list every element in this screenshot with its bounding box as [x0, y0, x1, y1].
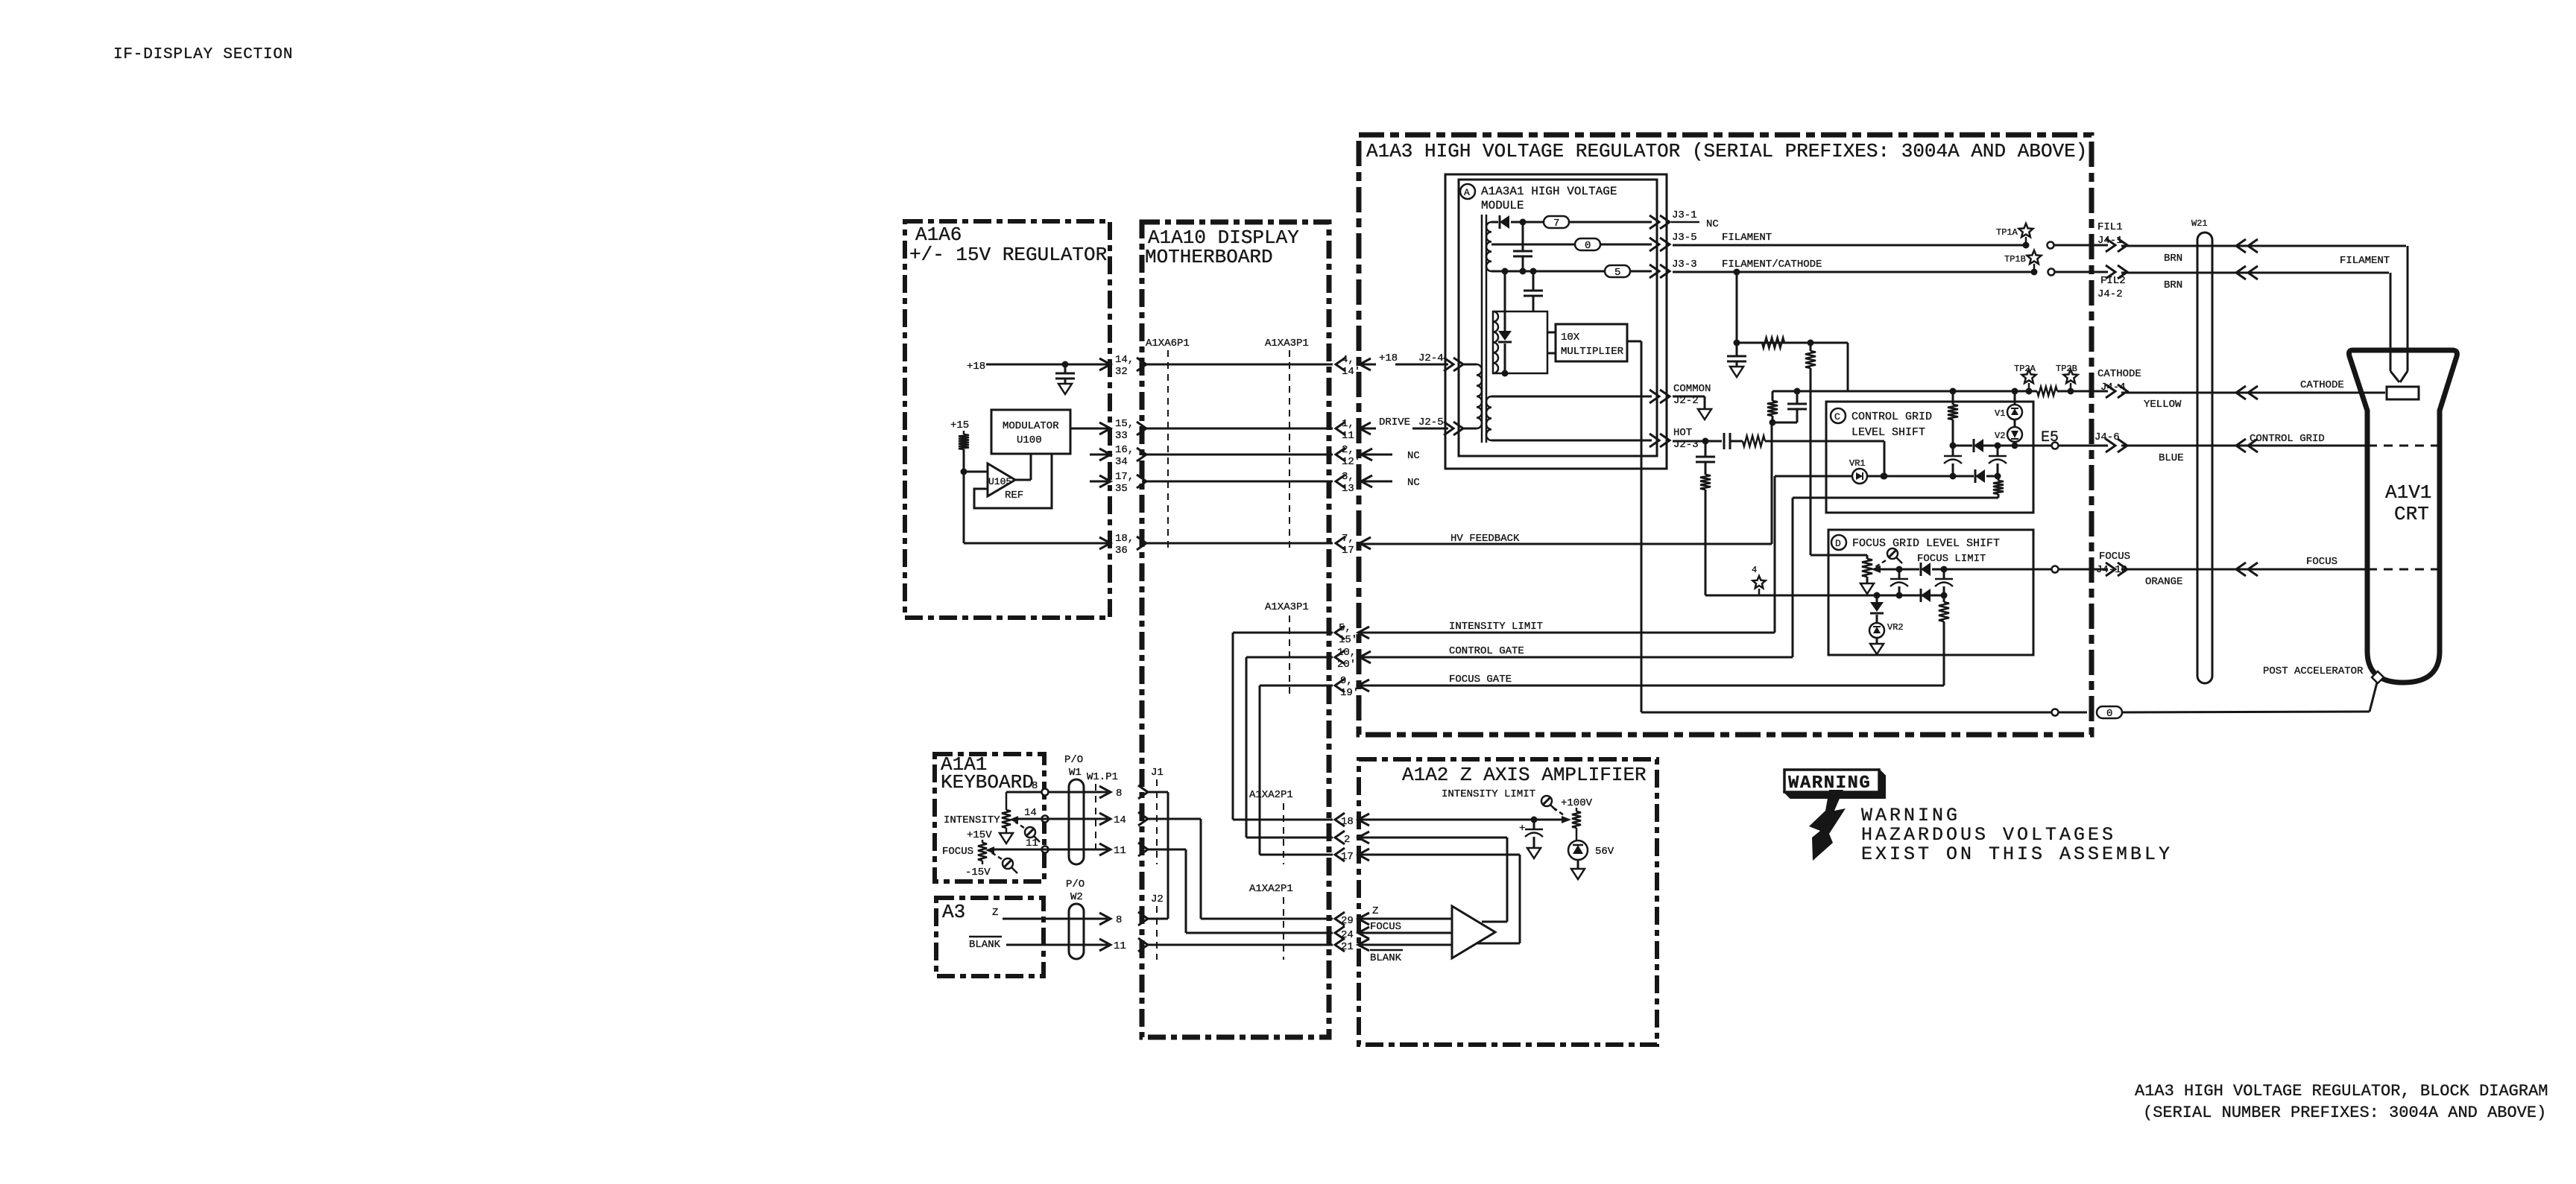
chevron A1A2 pin 18: [1335, 813, 1345, 826]
svg-text:BLANK: BLANK: [969, 939, 1001, 951]
arrowhead left toward pins 4,14: [1360, 358, 1371, 370]
resistor below focus row right to focus gate: [1939, 602, 1949, 621]
svg-text:W1: W1: [1069, 767, 1082, 779]
chevron intensity limit at A1XA3P1: [1335, 626, 1345, 639]
svg-text:13': 13': [1342, 483, 1360, 495]
svg-text:20': 20': [1337, 659, 1356, 671]
svg-text:FOCUS GATE: FOCUS GATE: [1449, 674, 1512, 686]
arrowhead into pins 18,36: [1099, 537, 1111, 549]
svg-text:A1A6: A1A6: [915, 224, 962, 246]
wire row 668 to control gate riser: [1793, 497, 1998, 499]
svg-text:J3-5: J3-5: [1672, 232, 1697, 244]
wire Z into op-amp: [1358, 918, 1452, 920]
wire filament/cathode to A1A3 edge: [2055, 271, 2108, 273]
wire cathode through W21: [2121, 392, 2385, 394]
svg-text:VR2: VR2: [1887, 622, 1904, 633]
lightning bolt: [1809, 790, 1846, 861]
svg-text:FIL2: FIL2: [2100, 275, 2126, 287]
svg-text:COMMON: COMMON: [1673, 383, 1711, 395]
svg-text:+18: +18: [1379, 352, 1398, 364]
svg-text:W21: W21: [2191, 218, 2208, 229]
keyboard focus pot: [982, 840, 984, 843]
svg-text:1,: 1,: [1342, 418, 1354, 430]
wire focus gate to focus box riser: [1358, 685, 1944, 687]
wire secondary3 to COMMON: [1491, 396, 1652, 398]
svg-text:A1A2 Z AXIS AMPLIFIER: A1A2 Z AXIS AMPLIFIER: [1402, 764, 1647, 786]
svg-text:MULTIPLIER: MULTIPLIER: [1561, 346, 1624, 358]
svg-text:EXIST ON THIS ASSEMBLY: EXIST ON THIS ASSEMBLY: [1861, 843, 2173, 865]
wire keyboard 11 to W1: [994, 849, 1108, 851]
test point star TP2B: [2064, 370, 2078, 383]
post accelerator diamond: [2372, 671, 2384, 683]
filament heater vee: [2390, 371, 2399, 382]
chevrons cathode from CRT: [2236, 386, 2246, 399]
svg-text:BRN: BRN: [2164, 253, 2182, 265]
wire divider row 460: [1737, 342, 1848, 344]
svg-text:MOTHERBOARD: MOTHERBOARD: [1145, 246, 1273, 268]
wire filament/cathode J3-3 to test point: [1673, 271, 2031, 273]
wire J1 pin14 to riser: [1148, 818, 1201, 820]
module outer box A1A3A1: [1445, 174, 1667, 469]
svg-text:FOCUS: FOCUS: [1370, 921, 1401, 933]
svg-text:33: 33: [1115, 430, 1128, 442]
ground below intensity pot: [1000, 833, 1013, 843]
svg-text:0: 0: [2106, 708, 2112, 720]
chevron A1A2 pin 17: [1335, 848, 1345, 861]
wire FIL1 through W21: [2121, 245, 2406, 247]
svg-text:A1A3 HIGH VOLTAGE REGULATOR, B: A1A3 HIGH VOLTAGE REGULATOR, BLOCK DIAGR…: [2135, 1082, 2548, 1101]
arrowhead drive into pins 15,33: [1099, 422, 1111, 434]
chevrons J3-5: [1650, 238, 1659, 251]
wire J1 pin11 to riser: [1148, 849, 1186, 851]
chevron at A1XA3P1 row 2,12: [1336, 448, 1345, 461]
wire NC row 16,34 short arrow: [1090, 454, 1108, 456]
svg-text:FOCUS: FOCUS: [2099, 551, 2130, 563]
dashed connector line A1XA3P1 lower: [1289, 615, 1290, 694]
chevron J1 pin8: [1138, 785, 1148, 799]
wire control gate to riser: [1360, 656, 1793, 659]
stub HV winding to multiplier lower: [1547, 352, 1556, 355]
transformer core lines: [1481, 215, 1483, 443]
svg-text:TP1A: TP1A: [1996, 227, 2018, 238]
svg-text:Z: Z: [992, 907, 998, 919]
arrowhead control gate: [1360, 651, 1371, 663]
wire to post accelerator oval: [2059, 712, 2087, 714]
ground at COMMON: [1698, 409, 1711, 420]
svg-text:A1XA2P1: A1XA2P1: [1249, 883, 1293, 895]
zener V2: [2007, 427, 2022, 442]
row A1A2 pin 18: [1233, 819, 1333, 821]
dashed connector line A1XA6P1: [1167, 350, 1169, 553]
svg-text:INTENSITY LIMIT: INTENSITY LIMIT: [1442, 788, 1535, 800]
wire V1 to V2: [2014, 420, 2016, 427]
assembly box A1A2 Z AXIS AMPLIFIER: [1359, 759, 1657, 1045]
riser control gate: [1792, 498, 1794, 657]
svg-text:V2: V2: [1995, 431, 2005, 441]
riser keyboard 8 to Z row: [1167, 792, 1169, 919]
op-amp U105 REF: [988, 463, 1015, 496]
wire BLANK into op-amp: [1358, 944, 1452, 946]
wire HOT divider down to row 799: [1705, 490, 1707, 595]
svg-text:BLANK: BLANK: [1370, 952, 1402, 964]
resistor below +15: [963, 431, 965, 434]
svg-text:+15V: +15V: [967, 829, 992, 841]
wire +18 from A1A6 to motherboard edge: [986, 364, 1108, 366]
wire A3 Z to W2: [1003, 918, 1108, 920]
svg-text:10X: 10X: [1561, 332, 1580, 344]
arrow NC row 3,13: [1361, 475, 1372, 487]
diode on focus row: [1921, 563, 1931, 576]
svg-text:CONTROL GRID: CONTROL GRID: [2250, 433, 2325, 445]
svg-text:+18: +18: [967, 361, 985, 373]
capacitor on +18 rail: [1062, 361, 1069, 368]
flag circle D: [1831, 535, 1846, 550]
CRT A1V1 envelope: [2349, 350, 2457, 683]
dashed connector A1XA2P1 upper: [1283, 803, 1284, 864]
svg-text:+15: +15: [950, 420, 969, 431]
dashed adjust to intensity wiper: [1015, 822, 1024, 828]
row A1A2 pin 29 Z: [1201, 918, 1333, 920]
svg-text:11: 11: [1026, 838, 1038, 849]
focus pot wiper arrow: [1871, 566, 1881, 573]
chevron into A1A10 for drive: [1137, 422, 1146, 435]
chevron A1A2 pin 29: [1335, 912, 1345, 925]
arrowhead left toward pins 7,17: [1360, 537, 1371, 549]
chevrons COMMON J2-2: [1650, 390, 1659, 403]
svg-text:J3-1: J3-1: [1672, 209, 1697, 221]
focus pot wiper: [985, 846, 994, 854]
svg-text:BLUE: BLUE: [2159, 452, 2184, 464]
svg-text:P/O: P/O: [1066, 878, 1085, 890]
chevron A1A2 pin 21: [1335, 938, 1345, 952]
svg-text:18,: 18,: [1115, 533, 1134, 545]
flag circle A: [1460, 184, 1475, 199]
dashed adjust to focus wiper: [991, 852, 1002, 859]
svg-text:Z: Z: [1372, 905, 1378, 917]
svg-text:FOCUS GRID LEVEL SHIFT: FOCUS GRID LEVEL SHIFT: [1852, 537, 2000, 550]
oval label 5: [1605, 265, 1630, 277]
assembly box A1A10 DISPLAY MOTHERBOARD: [1142, 222, 1329, 1037]
cable W21 oval: [2197, 232, 2212, 683]
svg-text:C: C: [1834, 411, 1840, 422]
screwdriver intensity limit: [1541, 796, 1552, 806]
cathode level row: [1772, 390, 2037, 393]
row CONTROL GATE: [1246, 656, 1333, 659]
chevrons focus from CRT: [2236, 563, 2246, 576]
focus pot feed corner: [1811, 554, 1867, 557]
wire +15 resistor to U105 input node: [963, 449, 965, 472]
dashed connector J1: [1156, 779, 1158, 864]
chevrons cathode out: [2106, 384, 2115, 398]
svg-text:+: +: [1519, 823, 1525, 835]
arrowhead row 17: [1358, 849, 1369, 861]
svg-text:DRIVE: DRIVE: [1379, 417, 1410, 428]
chevron at A1XA3P1 row 3,13: [1336, 475, 1345, 488]
svg-text:W2: W2: [1070, 891, 1083, 903]
arrowhead keyboard 8: [1099, 786, 1111, 798]
svg-text:J1: J1: [1151, 767, 1164, 779]
wire FOCUS into op-amp: [1358, 932, 1452, 934]
svg-text:29: 29: [1341, 915, 1354, 927]
svg-text:A1V1: A1V1: [2385, 481, 2431, 504]
svg-text:TP2B: TP2B: [2056, 364, 2077, 374]
test point star TP1B: [2027, 250, 2042, 264]
wire J2 pin8 to keyboard riser: [1148, 918, 1168, 920]
filament wire drop right: [2407, 246, 2409, 371]
wire VR1 line right segment: [1867, 475, 1974, 478]
wire U105 output to modulator: [1015, 479, 1031, 481]
op-amp triangle A1A2: [1452, 906, 1495, 958]
zener VR2: [1869, 623, 1884, 638]
wire HOT J2-3 node: [1673, 440, 1722, 443]
svg-text:KEYBOARD: KEYBOARD: [941, 771, 1034, 794]
capacitor wire7 to wire5: [1522, 222, 1524, 251]
svg-text:17,: 17,: [1115, 471, 1134, 483]
svg-text:MODULATOR: MODULATOR: [1003, 420, 1059, 432]
intensity pot wiper: [1009, 816, 1018, 823]
function box C CONTROL GRID LEVEL SHIFT: [1826, 402, 2033, 513]
divider resistor cathode to E5: [1952, 391, 1954, 405]
oval label 0: [1575, 238, 1600, 250]
resistor HOT divider: [1700, 475, 1711, 490]
svg-text:WARNING: WARNING: [1861, 805, 1960, 826]
svg-text:8: 8: [1116, 788, 1122, 800]
arrowhead A3 BLANK: [1099, 939, 1111, 951]
wire focus row to edge of box: [1944, 569, 2052, 571]
terminal circle focus: [2052, 566, 2059, 573]
dashed adjust line to wiper: [1875, 560, 1886, 567]
arrow NC row 2,12: [1361, 449, 1372, 460]
wire +18 across motherboard row 4,14: [1142, 364, 1333, 366]
wire VR1 line left segment: [1775, 475, 1852, 478]
svg-text:HAZARDOUS VOLTAGES: HAZARDOUS VOLTAGES: [1861, 824, 2116, 846]
wire filament J3-5 to test point: [1673, 244, 2023, 247]
chevrons FIL1 from CRT: [2236, 239, 2246, 253]
transformer secondary winding 3: [1486, 396, 1491, 440]
svg-text:0: 0: [1585, 240, 1591, 252]
series resistor on HOT wire: [1743, 436, 1765, 446]
wire intensity limit to riser: [1358, 632, 1775, 634]
capacitor E5 to VR1 line right: [1997, 446, 1999, 456]
resistor below VR1 line to control gate: [1993, 481, 2004, 494]
svg-text:CONTROL GRID: CONTROL GRID: [1851, 411, 1932, 423]
row FOCUS GATE: [1260, 685, 1333, 687]
svg-text:11: 11: [1114, 845, 1126, 857]
series resistor in row 460: [1762, 338, 1784, 348]
svg-text:36: 36: [1115, 545, 1128, 557]
riser control gate to A1A2 row: [1246, 657, 1248, 838]
chevrons filament out: [2106, 238, 2115, 252]
svg-text:A3: A3: [942, 901, 965, 923]
diode on wire 7: [1491, 221, 1498, 224]
chevron at A1XA3P1 row 7,17: [1336, 536, 1345, 550]
svg-text:11: 11: [1114, 940, 1126, 952]
wire focus to A1A3 edge: [2059, 569, 2108, 571]
cathode electrode rectangle: [2387, 387, 2419, 399]
arrowhead row 24: [1358, 927, 1369, 939]
arrowhead row 2: [1358, 832, 1369, 843]
row INTENSITY LIMIT: [1233, 632, 1333, 634]
arrowhead row 18: [1358, 814, 1369, 826]
intensity limit pot resistor: [1576, 808, 1578, 811]
wire V2 to E5 row: [2014, 442, 2016, 446]
oval label 7: [1544, 216, 1569, 228]
capacitor J3-3 branch to ground: [1736, 343, 1738, 356]
feedback wire modulator to U105: [974, 454, 1052, 508]
screwdriver adjust focus limit: [1887, 548, 1898, 559]
ground below VR2: [1876, 638, 1878, 644]
zener diode 56V: [1568, 840, 1588, 860]
screwdriver intensity: [1025, 827, 1035, 838]
diode on VR1 line: [1975, 469, 1985, 483]
riser focus gate to A1A2 row: [1259, 686, 1261, 855]
wire FIL2 through W21: [2121, 272, 2389, 274]
wire across motherboard row 7,17: [1142, 542, 1333, 545]
svg-text:17: 17: [1341, 851, 1354, 863]
svg-text:NC: NC: [1407, 477, 1420, 489]
svg-text:U100: U100: [1017, 434, 1042, 446]
wire HV feedback from U105 node: [963, 472, 965, 543]
svg-text:A1A3A1 HIGH VOLTAGE: A1A3A1 HIGH VOLTAGE: [1481, 185, 1617, 198]
svg-text:E5: E5: [2041, 429, 2059, 446]
chevron A1A2 pin 24: [1335, 926, 1345, 940]
svg-text:19': 19': [1340, 687, 1359, 699]
capacitor focus row right: [1943, 569, 1945, 579]
zener VR1: [1852, 469, 1867, 484]
function box D FOCUS GRID LEVEL SHIFT: [1828, 530, 2033, 655]
ground J3-3 branch: [1730, 367, 1743, 377]
wire A3 BLANK to W2: [1006, 944, 1108, 946]
wire focus through W21: [2121, 569, 2368, 571]
svg-text:CATHODE: CATHODE: [2300, 379, 2344, 391]
RC divider bottom bar: [1772, 422, 1797, 424]
chevron at A1XA3P1 for +18: [1336, 358, 1345, 371]
resistor RC divider left leg: [1772, 391, 1774, 401]
svg-text:CATHODE: CATHODE: [2097, 368, 2141, 380]
wire E5 to A1A3 edge: [2059, 445, 2108, 447]
wire E5 row left: [1953, 445, 1972, 447]
wire row 18 to pot wiper: [1358, 819, 1566, 821]
wire J1 pin8 to riser: [1148, 791, 1168, 794]
chevrons E5 out: [2106, 439, 2115, 452]
transformer HV winding bumps: [1493, 311, 1498, 373]
svg-text:IF-DISPLAY SECTION: IF-DISPLAY SECTION: [113, 46, 293, 63]
keyboard pin 11 circle: [1042, 846, 1049, 853]
chevrons FIL2 from CRT: [2236, 266, 2246, 279]
terminal circle E5: [2052, 443, 2059, 449]
chevrons filament/cathode out: [2106, 265, 2115, 279]
svg-text:VR1: VR1: [1849, 458, 1866, 469]
riser keyboard 14 to Z input row: [1200, 819, 1202, 919]
svg-text:J2-4: J2-4: [1418, 352, 1444, 364]
wire modulator output row 15,33: [1070, 428, 1108, 430]
svg-text:3,: 3,: [1342, 471, 1354, 483]
svg-text:A1XA2P1: A1XA2P1: [1249, 789, 1293, 801]
wire E5 row right: [1998, 445, 2052, 447]
keyboard pin 8 circle: [1042, 789, 1049, 796]
wire COMMON to ground: [1673, 396, 1705, 398]
svg-text:A1A3 HIGH VOLTAGE REGULATOR (S: A1A3 HIGH VOLTAGE REGULATOR (SERIAL PREF…: [1366, 140, 2087, 162]
svg-text:W1.P1: W1.P1: [1087, 771, 1118, 783]
wire across motherboard row 2,12: [1142, 454, 1333, 456]
chevron A1A2 pin 2: [1335, 831, 1345, 844]
svg-text:TP2A: TP2A: [2014, 364, 2036, 374]
dashed connector W1.P1: [1095, 784, 1096, 854]
wire row 799 to focus box: [1705, 595, 1944, 597]
wire across motherboard row 3,13: [1142, 481, 1333, 483]
wire NC row 17,35 short arrow: [1090, 481, 1108, 483]
assembly box A1A3 HIGH VOLTAGE REGULATOR: [1359, 135, 2092, 735]
svg-text:J3-3: J3-3: [1672, 259, 1697, 270]
chevrons control grid from CRT: [2236, 439, 2246, 452]
assembly box A1A1 KEYBOARD: [935, 754, 1044, 881]
svg-text:FOCUS LIMIT: FOCUS LIMIT: [1917, 553, 1986, 565]
svg-text:14': 14': [1342, 366, 1360, 378]
capacitor RC divider right leg: [1796, 391, 1799, 404]
svg-text:BRN: BRN: [2164, 279, 2182, 291]
svg-text:FOCUS: FOCUS: [942, 846, 973, 858]
multiplier box 10X: [1556, 324, 1627, 361]
svg-text:14: 14: [1114, 814, 1126, 826]
wire +18 into transformer primary: [1395, 364, 1448, 366]
wire drive across motherboard row 1,11: [1142, 428, 1333, 430]
wire 5 J3-3: [1491, 270, 1652, 273]
svg-text:14,: 14,: [1115, 354, 1134, 366]
chevron focus gate at A1XA3P1: [1335, 679, 1345, 692]
wire post accelerator return: [1641, 712, 2052, 714]
svg-text:INTENSITY: INTENSITY: [944, 814, 1000, 826]
svg-text:9,: 9,: [1340, 675, 1353, 687]
svg-text:A1XA6P1: A1XA6P1: [1146, 338, 1190, 349]
diode in HV winding: [1504, 271, 1506, 331]
svg-text:15': 15': [1339, 634, 1357, 646]
wire control grid through W21: [2121, 445, 2368, 447]
dashed connector A1XA2P1 lower: [1283, 897, 1284, 960]
capacitor focus row left: [1898, 569, 1901, 579]
svg-text:4,: 4,: [1342, 354, 1354, 366]
arrowhead keyboard 14: [1099, 813, 1111, 825]
wire keyboard 8 to W1: [1006, 791, 1042, 794]
svg-text:15,: 15,: [1115, 418, 1134, 430]
row A1A2 pin 17: [1260, 854, 1333, 856]
arrowhead left toward pins 1,11: [1360, 422, 1371, 434]
cable W1 oval: [1069, 779, 1084, 864]
screwdriver focus: [1003, 858, 1013, 869]
svg-text:CRT: CRT: [2394, 503, 2429, 525]
wire secondary3 to HOT: [1491, 440, 1652, 442]
modulator box U100: [991, 410, 1070, 454]
transformer primary winding: [1477, 364, 1482, 428]
svg-text:8: 8: [1032, 780, 1038, 792]
svg-text:HOT: HOT: [1673, 427, 1692, 439]
chevron into A1A10 row 2,12: [1137, 448, 1146, 461]
riser keyboard 11 to focus row: [1185, 849, 1187, 933]
svg-text:+100V: +100V: [1561, 797, 1593, 809]
svg-text:+/- 15V REGULATOR: +/- 15V REGULATOR: [909, 244, 1107, 266]
svg-text:7,: 7,: [1342, 533, 1354, 545]
chevrons J3-3: [1650, 265, 1659, 278]
svg-text:J4-1: J4-1: [2097, 235, 2123, 247]
ground below +18 capacitor: [1058, 384, 1072, 394]
svg-text:P/O: P/O: [1064, 754, 1083, 766]
chevron into A1A10 row 3,13: [1137, 475, 1146, 488]
svg-text:11': 11': [1342, 430, 1360, 442]
dashed focus electrode: [2368, 569, 2439, 571]
ground below zener 56V: [1577, 860, 1579, 869]
flag circle C: [1831, 408, 1846, 423]
assembly box A3: [936, 898, 1044, 976]
stub HV winding to multiplier upper: [1547, 332, 1556, 334]
